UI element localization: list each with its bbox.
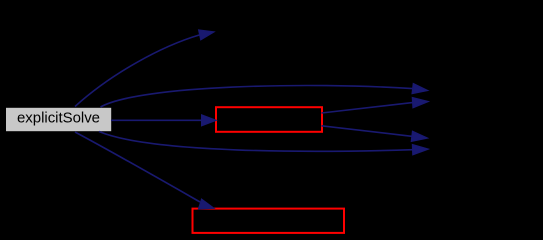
edge explicitSolve to bottom red node	[75, 132, 214, 209]
svg-text:explicitSolve: explicitSolve	[17, 110, 100, 127]
edge explicitSolve to middle red node	[111, 115, 217, 126]
node explicitSolve (grey filled)	[6, 108, 111, 131]
edge middle red node to right node 2	[322, 97, 429, 113]
node middle (red outlined, hidden label)	[216, 107, 322, 132]
edge explicitSolve to top node	[75, 30, 214, 107]
node bottom (red outlined, hidden label)	[193, 209, 345, 233]
edge middle red node to right node 3	[322, 126, 428, 142]
edge explicitSolve to right node 4	[99, 132, 429, 155]
edge explicitSolve to right node 1	[101, 83, 429, 107]
